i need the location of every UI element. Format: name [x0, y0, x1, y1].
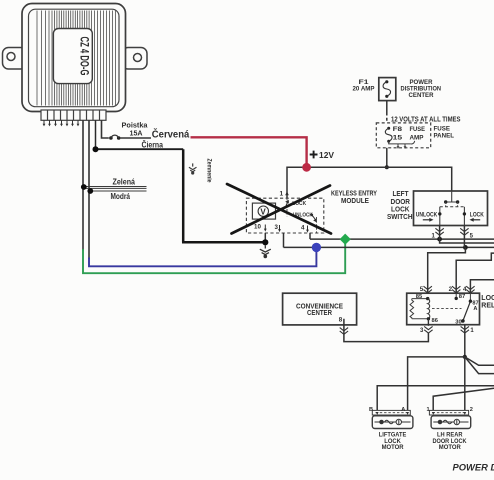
relay 87A contact	[469, 293, 471, 301]
keyless pin 4 arrow	[307, 226, 309, 231]
wire relay out diagonal 1	[465, 357, 494, 365]
svg-text:AMP: AMP	[410, 134, 425, 141]
lock relay box	[407, 293, 480, 325]
relay armature	[463, 303, 470, 321]
module U1 housing ribs	[37, 11, 116, 106]
ground symbol below pin 10	[260, 245, 271, 257]
svg-text:Modrá: Modrá	[111, 192, 131, 201]
svg-text:20 AMP: 20 AMP	[353, 86, 375, 93]
wire branch line1 jog right	[440, 239, 494, 243]
relay coil	[428, 299, 430, 319]
wire keyless pin 4 down	[309, 233, 311, 239]
switch feed dashed stubs	[446, 202, 458, 207]
svg-text:2: 2	[470, 407, 473, 413]
svg-text:DOOR: DOOR	[391, 199, 411, 206]
svg-text:2: 2	[449, 286, 453, 293]
wire keyless pin 10 to ground	[264, 233, 266, 240]
junction green node	[340, 234, 351, 245]
svg-text:1: 1	[470, 328, 474, 334]
label +12V	[310, 151, 318, 159]
svg-text:CZ 4 DO-G: CZ 4 DO-G	[78, 37, 92, 76]
switch armature dashed	[440, 206, 465, 208]
left door lock switch box	[414, 191, 488, 226]
wire main feed to keyless pin 1	[287, 167, 307, 198]
connector switch pin 5	[460, 228, 468, 235]
net lock line 2	[284, 246, 494, 248]
svg-text:1: 1	[427, 407, 430, 413]
svg-text:LOCK: LOCK	[481, 295, 494, 302]
relay resistor	[410, 299, 414, 319]
wire relay pin 3 down	[427, 319, 429, 326]
svg-text:15: 15	[393, 134, 403, 141]
connector relay pin 4	[466, 286, 474, 293]
module U1 label CZ 4 DO-G	[53, 29, 92, 84]
svg-text:12 VOLTS AT ALL TIMES: 12 VOLTS AT ALL TIMES	[391, 116, 461, 123]
svg-text:LOCK: LOCK	[470, 212, 484, 219]
wire keyless pin 3 down	[283, 233, 285, 247]
relay 87 contact	[455, 293, 457, 298]
relay armature dashed link	[432, 308, 462, 310]
svg-text:UNLOCK: UNLOCK	[416, 212, 438, 219]
svg-text:POWER DO: POWER DO	[453, 463, 494, 474]
wire fuse feed from connector	[102, 120, 109, 138]
wire relay pin 1 down	[464, 325, 466, 357]
junction fuse panel / main feed	[385, 165, 389, 169]
svg-text:Zelená: Zelená	[113, 177, 136, 186]
svg-text:8: 8	[339, 317, 343, 324]
wire cierna vertical from connector	[95, 120, 97, 149]
relay coil rail bottom	[412, 318, 429, 320]
relay coil rail top	[412, 298, 428, 300]
wire red +12V	[191, 137, 307, 164]
connector relay pin 3	[424, 326, 432, 333]
svg-text:Zemnenie: Zemnenie	[206, 159, 213, 183]
svg-text:CENTER: CENTER	[307, 309, 332, 317]
wire relay out diagonal 2	[465, 357, 494, 374]
junction switch pin5 node	[463, 245, 468, 250]
wire conv pin 8 to relay pin 3	[344, 319, 429, 342]
switch feed bar	[446, 191, 458, 202]
svg-text:A: A	[473, 306, 477, 312]
fuse F1 element	[383, 80, 391, 98]
wire F1 to fuse panel	[386, 101, 388, 113]
svg-text:Červená: Červená	[152, 129, 190, 141]
wire liftgate B feed	[377, 386, 494, 411]
svg-text:5: 5	[420, 286, 424, 293]
svg-text:B: B	[369, 407, 373, 413]
svg-text:15A: 15A	[130, 129, 143, 138]
fuse panel dashed box	[376, 123, 430, 148]
svg-text:MODULE: MODULE	[341, 197, 369, 205]
main 12V feed wire to door lock switch	[307, 167, 452, 191]
connector conv pin 8	[340, 328, 348, 335]
fuse F8 element	[385, 127, 392, 143]
wire relay out to LH motor pin 2	[464, 357, 466, 411]
wire blue lower run	[89, 250, 316, 267]
svg-text:LOCK: LOCK	[391, 206, 410, 213]
module U1 right mounting ear	[122, 48, 147, 70]
LH rear motor box	[431, 416, 471, 429]
svg-text:LEFT: LEFT	[393, 191, 410, 198]
liftgate motor box	[372, 416, 413, 429]
svg-text:10: 10	[254, 224, 261, 231]
wire LH motor pin 1 feed diagonal	[433, 388, 494, 410]
junction modra	[87, 188, 93, 194]
connector relay pin 5	[424, 286, 432, 293]
connector switch pin 1	[435, 228, 443, 235]
wire green lower run	[83, 242, 345, 274]
wire green branch vertical (black upper part)	[82, 120, 84, 250]
svg-text:86: 86	[432, 318, 439, 324]
fuse panel branch circuits	[389, 141, 415, 147]
junction relay pin 1 node	[463, 355, 467, 359]
fuse F 15A (Poistka)	[109, 135, 120, 140]
svg-text:1: 1	[280, 191, 284, 198]
lock direction arrow	[473, 219, 480, 221]
wire zelena stub	[84, 187, 147, 189]
module U1 left mounting ear	[3, 48, 27, 70]
wire relay out to liftgate A	[408, 357, 465, 411]
module U1 unused pin stubs	[44, 120, 78, 124]
keyless pin 3 arrow	[279, 225, 281, 230]
keyless receiver circle V	[258, 206, 268, 216]
LH rear motor connector	[429, 410, 468, 415]
svg-text:3: 3	[420, 328, 424, 334]
keyless pin 10 arrow	[264, 225, 266, 230]
wire fuse panel down to main feed	[386, 148, 388, 168]
svg-text:V: V	[260, 207, 266, 216]
unlock direction arrow	[423, 219, 430, 221]
svg-text:4: 4	[463, 286, 467, 293]
wire switch pin5 to relay 85	[428, 247, 466, 293]
svg-text:A: A	[401, 407, 405, 413]
module U1 housing inner	[29, 9, 120, 107]
wire right edge to relay 87A	[470, 280, 494, 293]
wire switch pin 5 down	[463, 226, 465, 248]
svg-text:F8: F8	[393, 126, 403, 133]
connector relay pin 2	[452, 286, 460, 293]
wire blue branch vertical (black upper part)	[88, 120, 90, 259]
module U1 bottom connector	[41, 110, 106, 120]
switch post 5	[463, 207, 465, 226]
svg-text:SWITCH: SWITCH	[387, 214, 413, 221]
svg-text:RELAY: RELAY	[481, 303, 494, 310]
liftgate motor symbol	[375, 419, 411, 424]
svg-text:30: 30	[455, 320, 461, 326]
connector relay pin 1	[461, 326, 469, 333]
convenience center box	[283, 293, 357, 325]
junction switch pin1 node	[437, 237, 442, 242]
LH rear motor symbol	[433, 419, 468, 424]
junction blue node	[312, 243, 321, 252]
wire switch pin 1 down	[439, 226, 441, 240]
net unlock line 1	[310, 238, 494, 240]
ground symbol (Zemnenie)	[189, 163, 197, 174]
X cross-out over keyless module	[227, 184, 331, 234]
svg-text:FUSE: FUSE	[410, 126, 426, 133]
svg-text:PANEL: PANEL	[434, 132, 455, 139]
fuse F1 20A box	[379, 78, 396, 101]
wire modra stub	[91, 190, 147, 192]
module U1 housing outer	[22, 4, 126, 112]
keyless entry module dashed box	[246, 198, 323, 233]
wire right edge to relay 87	[456, 253, 494, 293]
junction ground node	[262, 239, 268, 245]
svg-text:3: 3	[275, 224, 279, 231]
wire from fuse to red wire	[121, 137, 152, 139]
svg-text:CENTER: CENTER	[409, 92, 434, 99]
svg-text:MOTOR: MOTOR	[382, 444, 404, 451]
keyless receiver unit box	[252, 203, 275, 219]
liftgate motor connector	[372, 410, 410, 415]
svg-text:MOTOR: MOTOR	[439, 444, 461, 451]
keyless pin 1 arrow	[285, 191, 289, 195]
junction red +12V node	[302, 163, 311, 172]
wire cierna (black ground wire)	[96, 148, 184, 150]
keyless unlock switch contact	[311, 214, 314, 217]
svg-text:4: 4	[301, 225, 305, 232]
junction zelena	[81, 184, 87, 190]
svg-text:87: 87	[459, 294, 465, 300]
switch post 1	[439, 207, 441, 226]
junction cierna at connector wire	[93, 146, 99, 152]
svg-text:12V: 12V	[319, 151, 335, 160]
keyless lock switch contact	[286, 198, 288, 216]
